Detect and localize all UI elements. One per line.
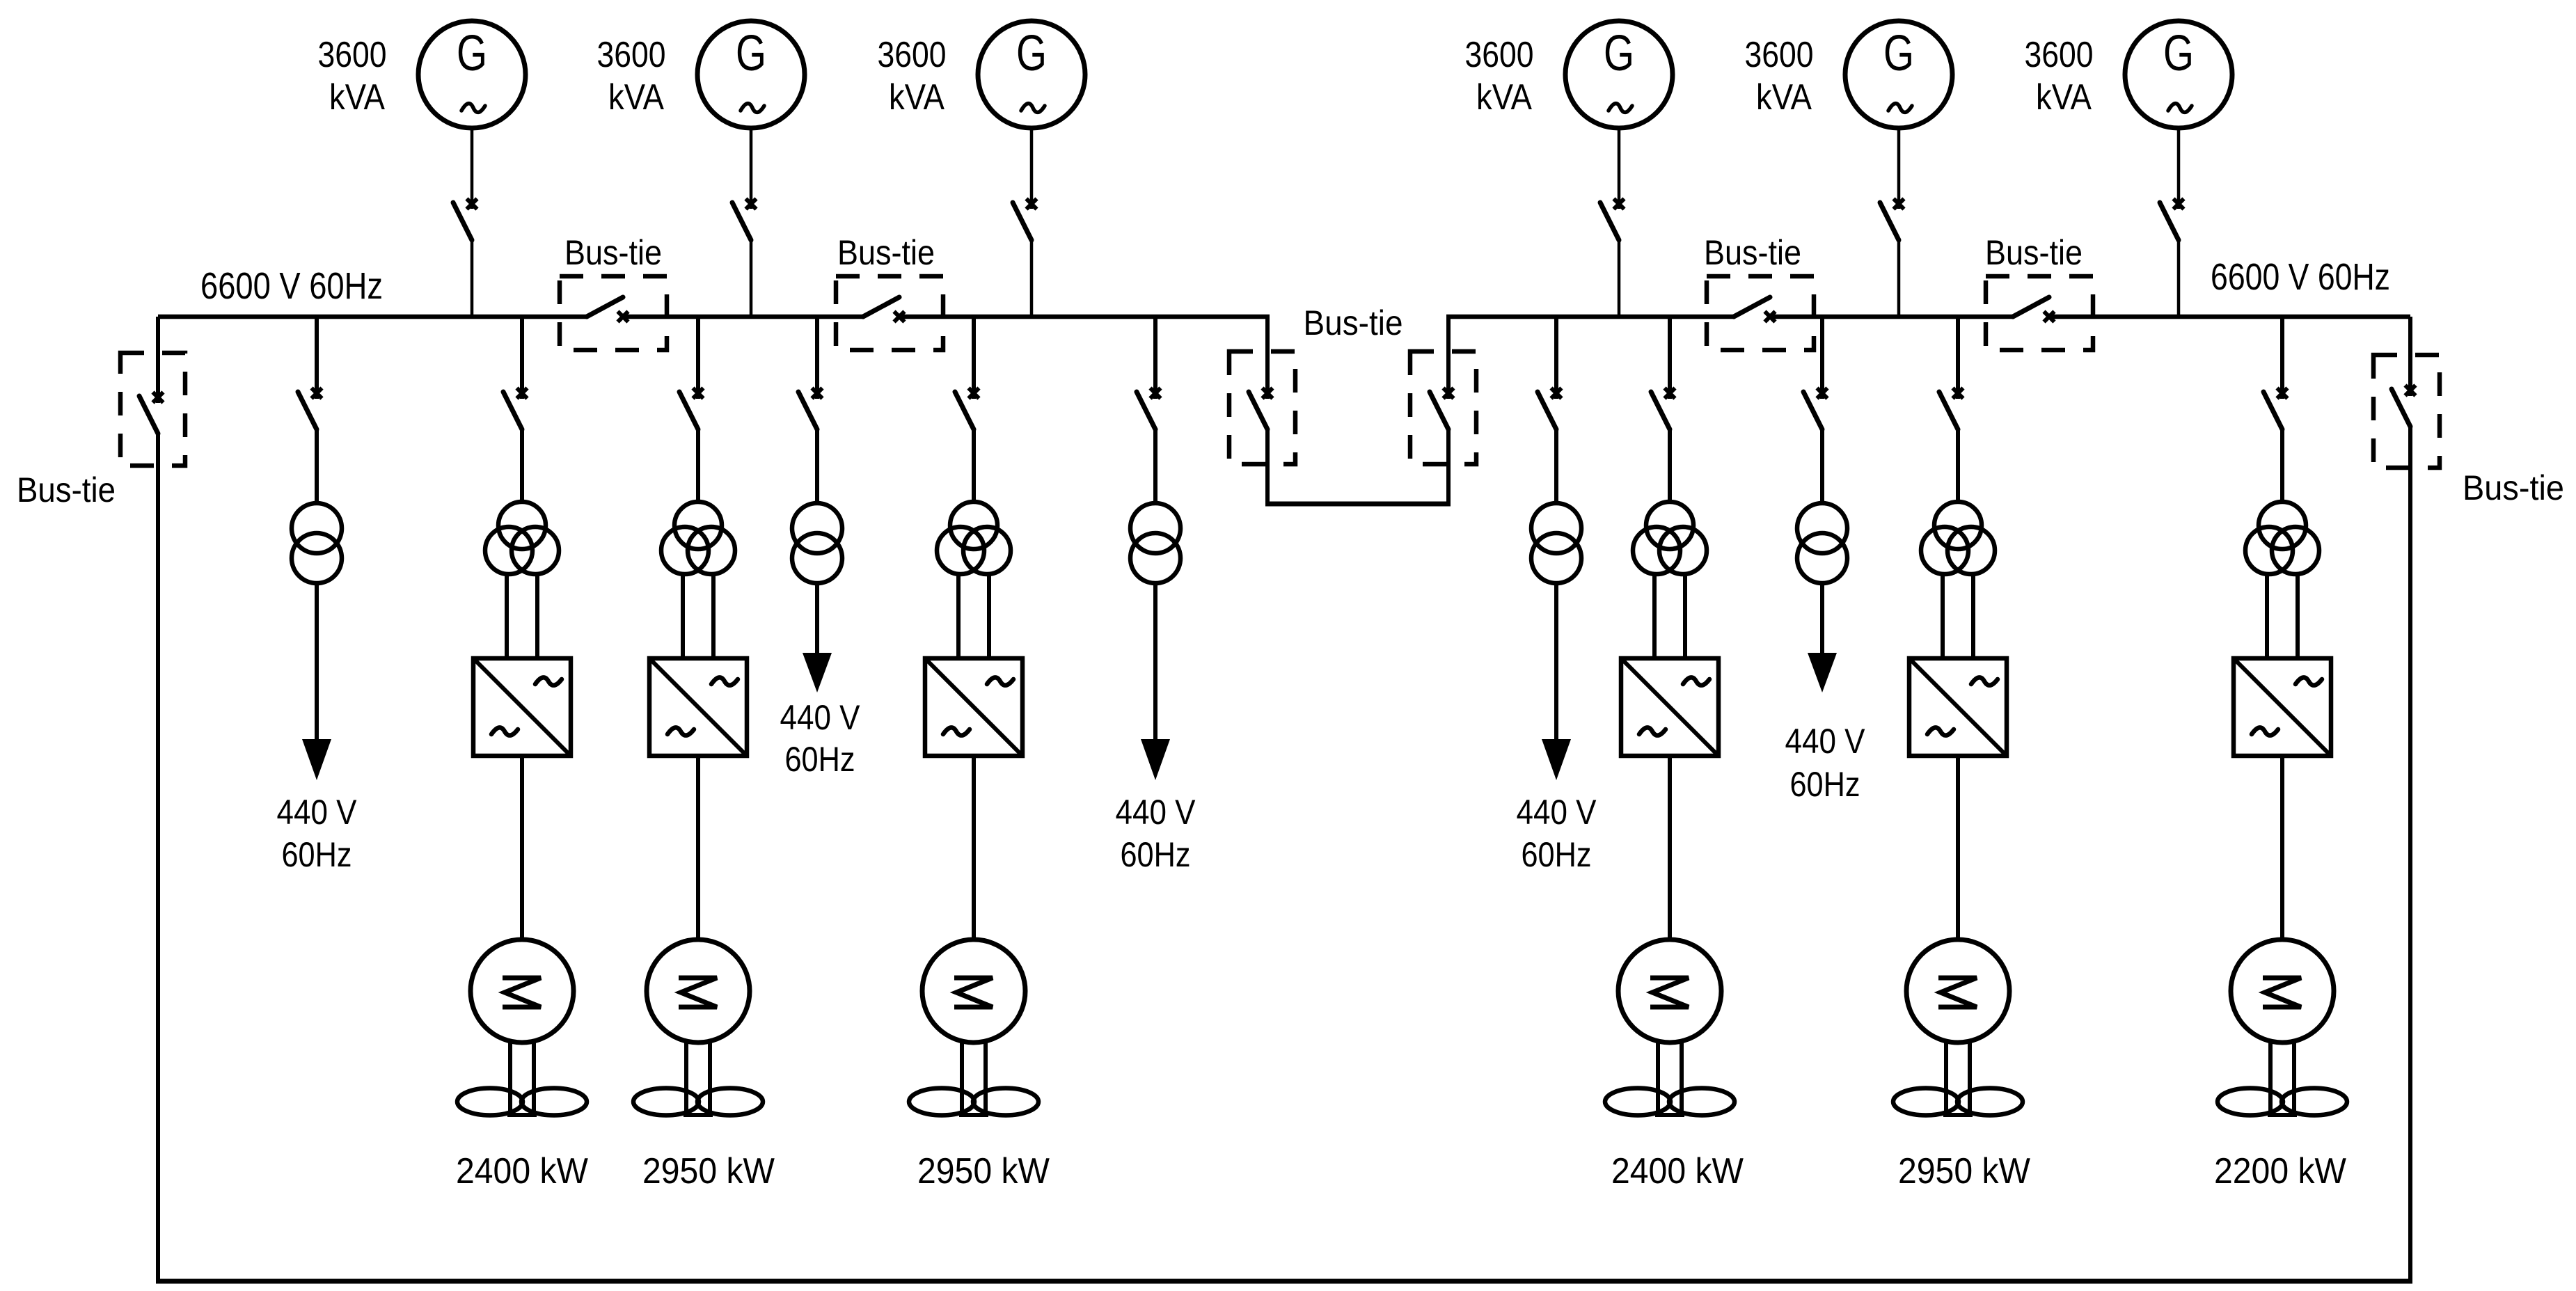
svg-text:G: G: [2163, 26, 2194, 81]
svg-text:3600: 3600: [2025, 35, 2094, 75]
svg-text:2400 kW: 2400 kW: [1611, 1151, 1744, 1191]
svg-text:Bus-tie: Bus-tie: [17, 470, 116, 509]
svg-text:440 V: 440 V: [1785, 722, 1866, 761]
svg-text:2200 kW: 2200 kW: [2214, 1151, 2346, 1191]
svg-text:G: G: [1016, 26, 1047, 81]
svg-text:440 V: 440 V: [277, 793, 358, 832]
svg-text:6600 V 60Hz: 6600 V 60Hz: [2211, 256, 2390, 298]
svg-text:3600: 3600: [1465, 35, 1534, 75]
svg-text:3600: 3600: [1745, 35, 1814, 75]
svg-text:440 V: 440 V: [1116, 793, 1196, 832]
svg-text:Bus-tie: Bus-tie: [1985, 233, 2083, 272]
svg-text:kVA: kVA: [1476, 77, 1532, 118]
svg-text:Bus-tie: Bus-tie: [564, 233, 662, 272]
svg-text:60Hz: 60Hz: [1790, 765, 1860, 804]
svg-text:60Hz: 60Hz: [1121, 835, 1191, 874]
svg-text:60Hz: 60Hz: [1522, 835, 1592, 874]
svg-text:Bus-tie: Bus-tie: [837, 233, 935, 272]
svg-text:kVA: kVA: [1756, 77, 1812, 118]
svg-text:kVA: kVA: [2036, 77, 2092, 118]
svg-text:G: G: [457, 26, 487, 81]
svg-text:kVA: kVA: [608, 77, 664, 118]
svg-text:2950 kW: 2950 kW: [917, 1151, 1050, 1191]
svg-text:Bus-tie: Bus-tie: [2463, 468, 2564, 507]
svg-text:440 V: 440 V: [780, 698, 861, 737]
svg-text:440 V: 440 V: [1517, 793, 1597, 832]
svg-text:kVA: kVA: [889, 77, 945, 118]
svg-text:kVA: kVA: [329, 77, 385, 118]
svg-text:2400 kW: 2400 kW: [456, 1151, 588, 1191]
svg-text:3600: 3600: [597, 35, 666, 75]
svg-text:2950 kW: 2950 kW: [642, 1151, 775, 1191]
svg-text:3600: 3600: [318, 35, 387, 75]
svg-text:3600: 3600: [878, 35, 947, 75]
svg-text:G: G: [736, 26, 766, 81]
svg-text:2950 kW: 2950 kW: [1898, 1151, 2030, 1191]
svg-text:Bus-tie: Bus-tie: [1704, 233, 1801, 272]
svg-text:60Hz: 60Hz: [785, 740, 855, 779]
svg-text:60Hz: 60Hz: [282, 835, 352, 874]
svg-text:Bus-tie: Bus-tie: [1304, 303, 1403, 342]
svg-text:6600 V 60Hz: 6600 V 60Hz: [200, 265, 383, 307]
svg-text:G: G: [1883, 26, 1914, 81]
svg-text:G: G: [1604, 26, 1634, 81]
